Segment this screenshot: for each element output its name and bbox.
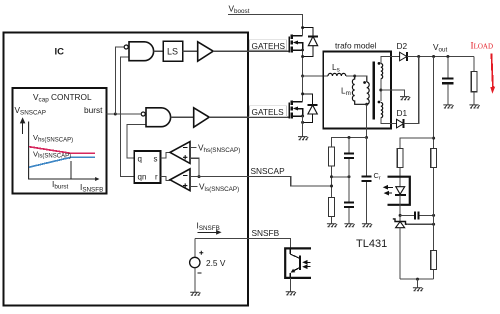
resistor R upper divider xyxy=(431,149,437,168)
wire CMP1 minus input stub xyxy=(190,147,197,149)
resistor R sense lower xyxy=(329,198,335,217)
diode D2 xyxy=(400,52,407,61)
wire qn output to AND gate G1 lower input xyxy=(121,57,135,176)
node output cap junction xyxy=(446,55,449,58)
buffer B2 xyxy=(194,108,210,127)
wire CMP2 plus input stub xyxy=(190,185,198,187)
NAND gate G2 xyxy=(146,108,171,127)
node burst junction xyxy=(114,113,117,116)
buffer B1 xyxy=(198,42,214,61)
wire Vout rail xyxy=(407,56,474,58)
node D1 return junction xyxy=(417,55,420,58)
primary polarity dot xyxy=(363,81,366,84)
Q1 body arrow xyxy=(293,41,298,45)
svg-text:D1: D1 xyxy=(397,108,408,118)
wire secondary bottom to D1 xyxy=(381,118,391,124)
LS box xyxy=(163,41,182,61)
secondary bottom polarity dot xyxy=(378,101,381,104)
svg-text:D2: D2 xyxy=(397,41,408,51)
ground below Q2 xyxy=(298,137,308,140)
CMP1 plus sign xyxy=(183,155,187,159)
wire 2.5V source top xyxy=(194,239,196,258)
wire Q1 source to mid node xyxy=(302,50,304,76)
wire divider mid xyxy=(433,168,435,251)
graph red curve Vhs xyxy=(29,147,95,154)
wire sense lower to ground xyxy=(331,217,333,224)
Q2 body arrow xyxy=(293,107,298,111)
node sense cap top junction xyxy=(348,136,351,139)
graph axes xyxy=(29,122,96,180)
wire TL431 ref to divider xyxy=(408,223,434,225)
resistor Rload xyxy=(471,72,477,92)
capacitor output Cout xyxy=(442,57,453,105)
wire Rload to ground xyxy=(473,92,475,105)
flip-flop box U1 xyxy=(134,151,160,183)
svg-text:GATELS: GATELS xyxy=(252,107,285,117)
GATEHS label box xyxy=(250,40,287,50)
wire Lm top to primary xyxy=(355,76,367,82)
wire center tap to ground xyxy=(381,90,405,97)
Q3 emitter arrow xyxy=(291,269,296,273)
graph Iburst tick xyxy=(70,161,72,179)
ground Cr xyxy=(362,224,372,227)
wire lower divider to bottom node xyxy=(433,269,435,279)
inductor Ls xyxy=(328,73,346,76)
LED emission arrow 2 xyxy=(385,192,392,195)
wire CMP1 plus input down to SNSCAP line xyxy=(190,158,199,176)
svg-text:trafo model: trafo model xyxy=(335,41,377,51)
wire SNSFB from 2.5V source to optocoupler xyxy=(195,239,290,249)
svg-text:qn: qn xyxy=(138,173,147,182)
diode D_Q2 body diode xyxy=(303,94,318,123)
svg-text:ILOAD: ILOAD xyxy=(471,41,494,51)
wire D1 anode xyxy=(391,123,397,125)
Q3 light arrow 1 xyxy=(303,261,310,264)
wire sense divider mid xyxy=(331,166,333,198)
wire burst from Vcap block to NAND input xyxy=(107,113,141,115)
GATELS label box xyxy=(250,106,287,117)
svg-text:SNSFB: SNSFB xyxy=(252,228,280,238)
secondary top polarity dot xyxy=(378,62,381,65)
ground sense caps xyxy=(344,224,354,227)
wire comp cap right xyxy=(419,214,433,216)
LED emission arrow 1 xyxy=(384,186,393,189)
capacitor Cr xyxy=(362,138,372,224)
gate G2 input bubble xyxy=(141,112,145,116)
IC outline box xyxy=(4,33,249,306)
resistor R sense upper xyxy=(329,147,335,166)
node Lm top junction xyxy=(353,75,356,78)
wire GATELS from buffer B2 to MOSFET gate xyxy=(209,116,289,118)
wire D2 anode xyxy=(391,56,400,58)
wire primary return down to resonant node xyxy=(366,104,368,137)
diode D1 xyxy=(397,119,404,128)
wire LS to buffer B1 xyxy=(183,50,198,52)
node CMP1 plus to SNSCAP junction xyxy=(198,175,201,178)
node Q2 source junction xyxy=(301,115,304,118)
wire feedback bottom rail xyxy=(400,278,434,280)
comparator CMP2 xyxy=(170,169,190,191)
wire load branch xyxy=(473,57,475,72)
comparator CMP1 xyxy=(170,142,190,164)
inductor Lm xyxy=(352,76,366,104)
wire comp cap left xyxy=(400,214,414,216)
ISNSFB arrow xyxy=(197,231,220,234)
AND gate G1 xyxy=(129,42,154,61)
wire GATEHS from buffer B1 to MOSFET gate xyxy=(213,50,289,52)
node Q2 diode return junction xyxy=(301,121,304,124)
trafo model box xyxy=(323,52,391,129)
wire V1 bottom to ground xyxy=(194,268,196,293)
CMP2 plus sign xyxy=(183,183,187,187)
TL431 U2 xyxy=(393,219,408,228)
wire mid node to Ls xyxy=(303,75,328,77)
wire G2 output to buffer B2 xyxy=(171,116,194,118)
wire SNSCAP outside to divider xyxy=(248,177,332,186)
svg-text:IC: IC xyxy=(55,47,65,58)
wire q output to NAND gate G2 lower input xyxy=(127,124,146,158)
CMP2 minus sign xyxy=(183,174,188,176)
graph up arrow xyxy=(21,119,25,135)
graph x-axis arrowhead xyxy=(95,177,99,181)
ground sense divider xyxy=(327,224,337,227)
node feedback ground junction xyxy=(416,278,419,281)
ground secondary center tap xyxy=(400,97,410,100)
node feedback branch junction xyxy=(432,55,435,58)
transformer primary winding xyxy=(367,82,370,104)
Q3 light arrow 2 xyxy=(303,265,310,268)
wire Ls to Lm node xyxy=(346,75,355,77)
node sense mid junction xyxy=(330,175,333,178)
capacitor sense lower xyxy=(344,203,354,224)
svg-text:q: q xyxy=(138,155,142,164)
wire r input from comparator CMP2 xyxy=(160,176,170,180)
node feedback split junction xyxy=(432,137,435,140)
wire TL431 anode down xyxy=(399,228,401,279)
wire LED cathode down xyxy=(399,195,401,221)
wire burst up to AND gate G1 input xyxy=(115,47,124,114)
node Vboost diode branch junction xyxy=(301,26,304,29)
ILOAD red arrow xyxy=(490,54,495,94)
wire Q3 emitter to ground xyxy=(289,278,291,292)
Vcap CONTROL block box xyxy=(13,88,107,194)
graph blue curve Vls xyxy=(29,157,95,167)
wire feedback branch from Vout xyxy=(433,57,435,149)
node primary bottom junction xyxy=(365,103,368,106)
wire bottom node to ground xyxy=(417,279,419,288)
wire s input from comparator CMP1 xyxy=(160,152,170,158)
wire feedback split to LED chain xyxy=(400,138,434,149)
capacitor comp xyxy=(415,211,418,219)
wire Q2 source to ground xyxy=(302,116,304,137)
wire Vboost rail xyxy=(228,14,303,35)
ground below Rload xyxy=(469,105,479,108)
wire D1 cathode up to Vout xyxy=(404,57,419,124)
wire secondary to center tap xyxy=(380,79,382,101)
svg-text:SNSCAP: SNSCAP xyxy=(251,166,286,176)
node cap branch mid junction xyxy=(348,175,351,178)
wire resonant rail to sense divider xyxy=(332,138,367,148)
wire sense mid to cap branch xyxy=(332,176,350,178)
phototransistor Q3 xyxy=(290,248,300,278)
node half-bridge mid node xyxy=(301,75,304,78)
wire secondary top to D2 xyxy=(381,57,391,64)
ground below Cout xyxy=(443,105,453,108)
gate G1 input bubble xyxy=(124,45,128,49)
optocoupler LED enclosure xyxy=(388,177,410,205)
node Q1 source junction xyxy=(301,49,304,52)
V1 minus sign xyxy=(198,272,202,274)
wire SNSCAP line from CMP2 minus to pin xyxy=(190,176,248,178)
wire G1 output to LS xyxy=(154,50,164,52)
V1 plus sign xyxy=(199,251,203,255)
ground feedback network xyxy=(413,288,423,291)
secondary top winding xyxy=(381,64,383,79)
svg-text:2.5 V: 2.5 V xyxy=(206,258,226,268)
svg-text:r: r xyxy=(155,173,158,182)
wire mid node down to Q2 xyxy=(302,76,304,102)
optocoupler phototransistor enclosure xyxy=(285,248,311,278)
node LED-TL431 junction xyxy=(399,214,402,217)
transformer core xyxy=(372,62,375,120)
svg-text:s: s xyxy=(154,155,158,164)
node center tap junction xyxy=(379,89,382,92)
resistor R LED chain xyxy=(397,149,403,168)
node TL431 ref junction xyxy=(432,223,435,226)
LED D3 xyxy=(395,187,406,196)
resistor R lower divider xyxy=(431,250,437,269)
transistor Q2 low-side MOSFET xyxy=(289,101,303,119)
voltage source V1 2.5V xyxy=(190,257,200,267)
svg-text:GATEHS: GATEHS xyxy=(252,41,286,51)
node SNSCAP tap junction xyxy=(330,185,333,188)
ground below V1 xyxy=(190,292,200,295)
svg-text:LS: LS xyxy=(167,47,178,57)
node resonant rail junction xyxy=(365,136,368,139)
transistor Q1 high-side MOSFET xyxy=(289,35,303,53)
node comp cap right junction xyxy=(432,214,435,217)
wire R to LED box xyxy=(399,168,401,187)
node Q1 source diode junction xyxy=(301,55,304,58)
svg-text:TL431: TL431 xyxy=(356,238,387,250)
diode D_Q1 body diode xyxy=(303,28,318,57)
node Q2 diode branch junction xyxy=(301,92,304,95)
ground below Q3 xyxy=(286,292,296,295)
secondary bottom winding xyxy=(381,103,383,118)
capacitor sense upper xyxy=(344,138,354,202)
CMP1 minus sign xyxy=(183,147,188,149)
svg-text:burst: burst xyxy=(84,105,103,115)
